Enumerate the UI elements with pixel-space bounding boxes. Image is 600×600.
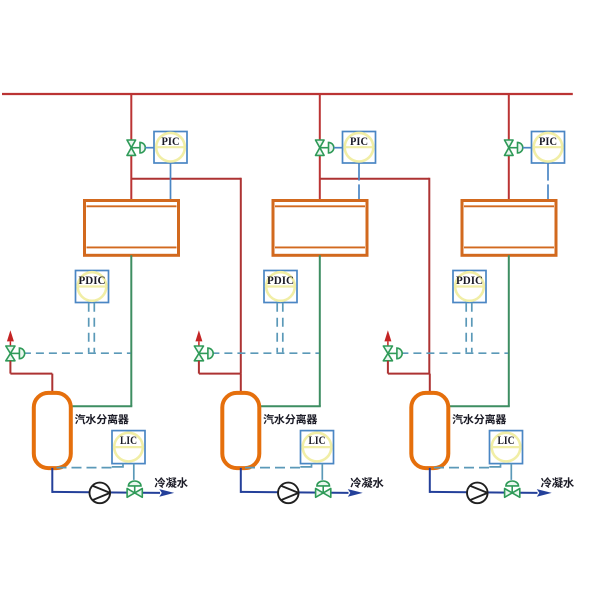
level control valve unit3 [505, 481, 520, 497]
relief valve unit1 [6, 346, 25, 361]
svg-text:LIC: LIC [309, 433, 326, 447]
steam header pipe [2, 93, 573, 95]
controller PIC unit1 [154, 132, 187, 164]
controller PIC unit3 [532, 132, 565, 164]
steam drop pipe unit2 [319, 94, 321, 201]
impulse lines PDIC unit2 [277, 303, 283, 353]
flow arrow unit3 [537, 489, 552, 497]
label separator unit3 [452, 414, 506, 424]
svg-text:PDIC: PDIC [456, 273, 483, 287]
controller PDIC unit1 [76, 271, 109, 303]
relief pipe unit2 [199, 361, 241, 394]
impulse lines PDIC unit1 [89, 303, 95, 353]
svg-text:LIC: LIC [498, 433, 515, 447]
svg-text:PIC: PIC [350, 134, 368, 148]
relief pipe unit3 [388, 361, 430, 394]
signal line PIC to exchanger unit2 [358, 163, 360, 200]
label condensate unit1 [155, 477, 188, 488]
condensate pipe unit2 [241, 468, 349, 493]
signal line relief valve unit1 [23, 352, 131, 354]
flow arrow unit1 [159, 489, 174, 497]
condensate pipe unit1 [52, 468, 160, 493]
signal line valve to PIC unit3 [523, 147, 532, 149]
level control valve unit2 [316, 481, 331, 497]
steam drop pipe unit3 [508, 94, 510, 201]
label condensate unit2 [350, 477, 383, 488]
steam control valve unit3 [505, 140, 523, 155]
controller PIC unit2 [343, 132, 376, 164]
steam drop pipe unit1 [130, 94, 132, 201]
heat exchanger E1 [85, 201, 179, 256]
label separator unit1 [75, 414, 129, 424]
relief valve unit2 [194, 346, 213, 361]
steam control valve unit1 [127, 140, 145, 155]
vent arrow unit1 [7, 330, 14, 346]
signal line PIC to exchanger unit3 [547, 163, 549, 200]
level tap line unit3 [434, 464, 501, 468]
relief pipe unit1 [10, 361, 52, 394]
svg-text:PDIC: PDIC [79, 273, 106, 287]
condensate outlet pipe unit2 [259, 255, 321, 406]
level tap line unit1 [57, 464, 124, 468]
controller LIC unit2 [301, 431, 334, 464]
controller LIC unit3 [490, 431, 523, 464]
signal line relief valve unit3 [400, 352, 508, 354]
heat exchanger E2 [273, 201, 367, 256]
pump P3 [467, 483, 488, 504]
signal line LIC to valve unit3 [510, 464, 512, 480]
level control valve unit1 [127, 481, 142, 497]
condensate pipe unit3 [430, 468, 538, 493]
steam-water separator V1 [34, 393, 71, 468]
signal line valve to PIC unit1 [145, 147, 154, 149]
flow arrow unit2 [348, 489, 363, 497]
controller PDIC unit2 [264, 271, 297, 303]
condensate outlet pipe unit3 [448, 255, 510, 406]
pipe branch unit2 to separator V3 [320, 178, 430, 374]
svg-text:LIC: LIC [120, 433, 137, 447]
steam control valve unit2 [316, 140, 334, 155]
heat exchanger E3 [462, 201, 556, 256]
pump P1 [90, 483, 111, 504]
signal line LIC to valve unit1 [133, 464, 135, 480]
svg-text:PDIC: PDIC [267, 273, 294, 287]
vent arrow unit2 [195, 330, 202, 346]
level tap line unit2 [245, 464, 312, 468]
controller PDIC unit3 [453, 271, 486, 303]
steam-water separator V2 [222, 393, 259, 468]
svg-text:PIC: PIC [162, 134, 180, 148]
steam-water separator V3 [411, 393, 448, 468]
signal line LIC to valve unit2 [321, 464, 323, 480]
signal line relief valve unit2 [211, 352, 319, 354]
signal line valve to PIC unit2 [334, 147, 343, 149]
pump P2 [278, 483, 299, 504]
label separator unit2 [263, 414, 317, 424]
impulse lines PDIC unit3 [466, 303, 472, 353]
controller LIC unit1 [112, 431, 145, 464]
signal line PIC to exchanger unit1 [170, 163, 172, 200]
label condensate unit3 [541, 477, 574, 488]
svg-text:PIC: PIC [539, 134, 557, 148]
relief valve unit3 [383, 346, 402, 361]
pipe branch unit1 to separator V2 [131, 178, 241, 374]
vent arrow unit3 [384, 330, 391, 346]
condensate outlet pipe unit1 [71, 255, 133, 406]
